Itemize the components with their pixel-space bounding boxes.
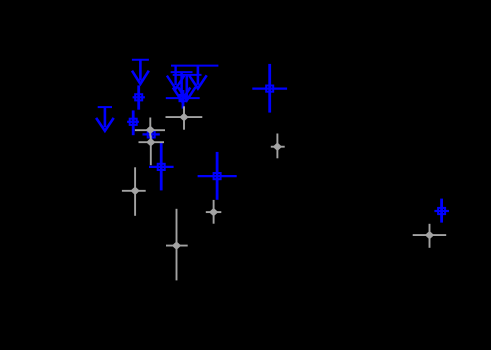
point Pe yerr — [182, 90, 185, 109]
point Pmid square marker — [158, 164, 165, 170]
point P3 xerr — [143, 133, 160, 135]
point Pmid xerr — [149, 166, 174, 168]
point Pright yerr — [440, 199, 443, 223]
gray point G diamond marker — [274, 143, 281, 150]
upper limit UL2 arrowhead — [96, 118, 114, 131]
point P2 square marker — [130, 119, 137, 125]
upper limit UL-b arrow shaft — [197, 66, 200, 85]
point Pbig square marker — [214, 173, 221, 179]
point Pmid yerr — [160, 143, 163, 191]
upper limit UL-d arrowhead — [178, 87, 195, 100]
point P2 yerr — [132, 110, 135, 135]
point P3 yerr — [150, 128, 153, 142]
point Pe xerr — [166, 97, 200, 99]
gray point A xerr — [135, 129, 165, 131]
point Pbig xerr — [198, 175, 237, 177]
point Pbig yerr — [216, 152, 219, 200]
gray point H diamond marker — [180, 114, 187, 121]
upper limit UL-c arrowhead — [173, 88, 190, 101]
upper limit UL-c xerr bar — [171, 71, 193, 73]
gray point E diamond marker — [210, 209, 217, 216]
upper limit UL-b arrowhead — [189, 75, 207, 88]
point Ptr square marker — [266, 86, 273, 92]
upper limit UL1 arrow shaft — [139, 60, 142, 81]
gray point R xerr — [413, 234, 447, 236]
gray point D diamond marker — [131, 187, 138, 194]
gray point C xerr — [139, 141, 165, 143]
point Ptr yerr — [268, 64, 271, 113]
gray point R yerr — [429, 224, 431, 248]
upper limit UL-d xerr bar — [173, 74, 202, 76]
gray point C diamond marker — [147, 139, 154, 146]
upper limit UL1 arrowhead — [132, 71, 149, 84]
cluster shared xerr bar of UL-a and UL-b — [171, 65, 218, 67]
upper limit UL2 xerr bar — [98, 106, 112, 108]
point P3 square marker — [148, 131, 155, 137]
point P2 xerr — [127, 121, 139, 123]
point Ptr xerr — [252, 87, 287, 89]
gray point E yerr — [213, 200, 215, 224]
gray point H xerr — [166, 116, 203, 118]
point P1 square marker — [135, 94, 142, 100]
gray point H yerr — [183, 106, 185, 129]
gray point G yerr — [276, 134, 278, 159]
gray point A yerr — [149, 118, 151, 137]
gray point F yerr — [176, 209, 178, 281]
gray point D yerr — [134, 167, 136, 216]
point Pright xerr — [434, 210, 449, 212]
gray point F xerr — [166, 245, 188, 247]
gray point C yerr — [150, 136, 152, 166]
upper limit UL-a arrow shaft — [174, 66, 176, 85]
gray point A diamond marker — [147, 127, 154, 134]
gray point F diamond marker — [173, 242, 180, 249]
upper limit UL-c arrow shaft — [180, 72, 183, 97]
gray point G xerr — [271, 146, 285, 148]
point P1 yerr — [137, 85, 140, 109]
upper limit UL1 xerr bar — [132, 59, 149, 61]
point Pe square marker — [180, 95, 187, 101]
gray point D xerr — [122, 190, 146, 192]
gray point E xerr — [206, 211, 222, 213]
upper limit UL2 arrow shaft — [104, 107, 107, 127]
point P1 xerr — [133, 96, 145, 98]
point Pright square marker — [438, 208, 445, 214]
upper limit UL-a arrowhead — [167, 76, 184, 89]
gray point R diamond marker — [426, 232, 433, 239]
upper limit UL-d arrow shaft — [186, 75, 189, 97]
